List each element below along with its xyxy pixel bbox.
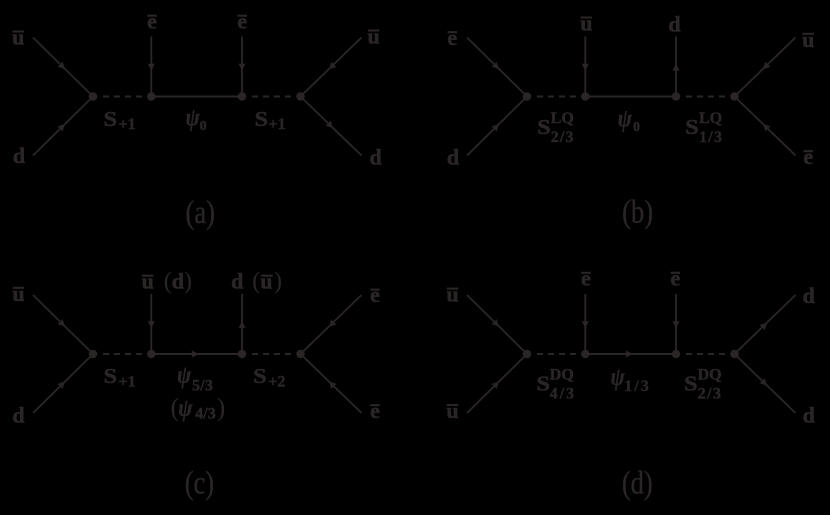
svg-text:(b): (b) [622, 194, 653, 230]
svg-text:LQ: LQ [551, 110, 574, 127]
wire outgoing bottom-right leg (b) [735, 97, 796, 156]
wire incoming bottom-left leg (b) [467, 97, 527, 156]
arrow on bottom-right leg (d) [759, 378, 769, 388]
svg-text:0: 0 [200, 119, 207, 134]
svg-text:(d): (d) [622, 465, 653, 501]
svg-text:S: S [253, 364, 266, 388]
svg-text:u: u [367, 24, 379, 49]
overbar of label u-bar top-left (a) [12, 30, 24, 32]
overbar of label u-bar bottom-left (d) [447, 404, 459, 406]
label S+2 (c) [253, 364, 266, 388]
svg-text:u: u [802, 27, 814, 52]
svg-text:1/3: 1/3 [624, 378, 650, 395]
overbar of label u-bar top-right (a) [368, 29, 380, 31]
vertex dot 2 (c) [147, 350, 156, 359]
vertex dot 3 (d) [672, 350, 681, 359]
svg-text:DQ: DQ [550, 366, 574, 383]
wire outgoing bottom-right leg (a) [301, 97, 362, 156]
overbar of label e-bar bottom-right (b) [803, 150, 813, 152]
arrow on top-left leg (c) [57, 319, 67, 329]
vertex dot 3 (a) [238, 92, 247, 101]
caption (a) [185, 194, 214, 230]
svg-text:(a): (a) [185, 194, 214, 230]
wire outgoing bottom-right leg (d) [735, 354, 796, 413]
label S+1 left (a) [104, 107, 117, 131]
svg-text:d: d [668, 12, 680, 37]
svg-text:d: d [447, 145, 459, 170]
svg-text:DQ: DQ [698, 366, 722, 383]
svg-text:): ) [217, 393, 226, 422]
label S-LQ-2/3 (b) [537, 115, 550, 139]
svg-text:u: u [12, 25, 24, 50]
overbar of u in "u-bar (d)" (c) [142, 275, 154, 277]
wire incoming top-left leg (d) [467, 295, 527, 354]
svg-text:+2: +2 [268, 373, 285, 390]
vertex dot 4 (d) [730, 350, 739, 359]
arrow on top-right leg (b) [760, 62, 770, 72]
arrow on top-left leg (a) [57, 61, 67, 71]
svg-text:e: e [803, 144, 813, 169]
wire incoming top-left leg (a) [33, 38, 93, 97]
svg-text:S: S [104, 364, 117, 388]
dashed scalar propagator right (a) [252, 96, 291, 98]
arrow on left vertical (b) [582, 63, 589, 70]
overbar of u in "(u-bar)" (c) [261, 275, 273, 277]
fermion line psi (a) [151, 96, 242, 98]
fermion line psi (d) [585, 353, 676, 355]
svg-text:u: u [446, 398, 458, 423]
vertex dot 1 (d) [523, 350, 532, 359]
svg-text:S: S [684, 372, 697, 396]
vertex dot 1 (b) [523, 92, 532, 101]
caption (b) [622, 194, 653, 230]
vertex dot 2 (b) [581, 92, 590, 101]
wire vertical at left vertex (d) [584, 294, 586, 354]
wire outgoing top-right leg (c) [301, 295, 362, 354]
vertex dot 2 (d) [581, 350, 590, 359]
svg-text:d: d [13, 143, 25, 168]
label psi0 (b) [618, 105, 633, 133]
svg-text:e: e [447, 25, 457, 50]
svg-text:ψ: ψ [177, 361, 192, 389]
svg-text:2/3: 2/3 [698, 386, 723, 403]
label S-DQ-2/3 (d) [684, 372, 697, 396]
vertex dot 4 (b) [730, 92, 739, 101]
svg-text:+1: +1 [119, 116, 136, 133]
wire outgoing top-right leg (a) [301, 38, 362, 97]
svg-text:ψ: ψ [618, 105, 633, 133]
svg-text:+1: +1 [269, 116, 286, 133]
arrow on top-right leg (a) [326, 62, 336, 72]
arrow on bottom-right leg (a) [325, 120, 335, 130]
dashed scalar propagator left (a) [103, 96, 142, 98]
svg-text:S: S [537, 372, 550, 396]
svg-text:4/3: 4/3 [550, 386, 576, 403]
wire vertical at left vertex (a) [150, 37, 152, 97]
svg-text:e: e [370, 282, 380, 307]
overbar of label u-bar top-left (d) [447, 288, 459, 290]
wire outgoing top-right leg (b) [735, 38, 796, 97]
arrow on top-right leg (c) [326, 319, 336, 329]
overbar of label e-bar left vertical (a) [147, 15, 157, 17]
svg-text:+1: +1 [119, 373, 136, 390]
svg-text:(d): (d) [164, 269, 192, 295]
wire incoming bottom-left leg (d) [467, 354, 527, 413]
svg-text:ψ: ψ [178, 394, 193, 422]
svg-text:u: u [12, 281, 24, 306]
wire incoming top-left leg (c) [33, 295, 93, 354]
overbar of label e-bar bottom-right (c) [370, 404, 380, 406]
wire incoming top-left leg (b) [467, 38, 527, 97]
overbar of label e-bar top-left (b) [448, 31, 458, 33]
svg-text:d: d [369, 145, 381, 170]
vertex dot 3 (b) [672, 92, 681, 101]
dashed scalar propagator left (b) [537, 96, 576, 98]
label S+1 (c) [104, 364, 117, 388]
caption (c) [185, 465, 214, 501]
label S+1 right (a) [255, 107, 268, 131]
vertex dot 1 (a) [89, 92, 98, 101]
svg-text:u: u [580, 11, 592, 36]
svg-text:1/3: 1/3 [699, 129, 723, 146]
overbar of label e-bar right vertical (d) [671, 272, 681, 274]
arrow on psi line (c) [192, 350, 199, 357]
wire outgoing bottom-right leg (c) [301, 354, 362, 413]
label S-DQ-4/3 (d) [537, 372, 550, 396]
arrow on right vertical (b) [672, 64, 679, 71]
overbar of label e-bar left vertical (d) [581, 272, 591, 274]
svg-text:e: e [237, 8, 247, 33]
overbar of label e-bar top-right (c) [370, 289, 380, 291]
vertex dot 4 (a) [296, 92, 305, 101]
wire outgoing top-right leg (d) [735, 295, 796, 354]
wire vertical at left vertex (b) [584, 37, 586, 97]
arrow on bottom-left leg (c) [57, 379, 67, 389]
dashed scalar propagator right (d) [686, 353, 725, 355]
arrow on bottom-right leg (b) [760, 121, 770, 131]
dashed scalar propagator left (c) [103, 353, 142, 355]
svg-text:d: d [12, 402, 24, 427]
label S-LQ-1/3 (b) [685, 115, 698, 139]
arrow on psi line (d) [626, 350, 633, 357]
arrow on bottom-left leg (b) [491, 121, 501, 131]
svg-text:u: u [446, 282, 458, 307]
arrow on left vertical (c) [148, 321, 155, 328]
svg-text:e: e [370, 398, 380, 423]
overbar of label u-bar top-left (c) [13, 287, 25, 289]
svg-text:S: S [685, 115, 698, 139]
svg-text:4/3: 4/3 [195, 406, 215, 423]
svg-text:2/3: 2/3 [551, 129, 575, 146]
svg-text:ψ: ψ [186, 104, 201, 132]
arrow on left vertical (d) [582, 321, 589, 328]
wire vertical at right vertex (d) [675, 294, 677, 354]
wire vertical at right vertex (b) [675, 37, 677, 97]
svg-text:d: d [231, 269, 243, 294]
svg-text:(u): (u) [252, 269, 282, 295]
svg-text:e: e [147, 8, 157, 33]
vertex dot 3 (c) [238, 350, 247, 359]
arrow on right vertical (d) [672, 321, 679, 328]
svg-text:e: e [581, 265, 591, 290]
svg-text:S: S [537, 115, 550, 139]
vertex dot 4 (c) [296, 350, 305, 359]
wire incoming bottom-left leg (c) [33, 354, 93, 413]
caption (d) [622, 465, 653, 501]
arrow on bottom-right leg (c) [326, 379, 336, 389]
wire incoming bottom-left leg (a) [33, 97, 93, 156]
dashed scalar propagator right (b) [686, 96, 725, 98]
svg-text:ψ: ψ [611, 364, 626, 392]
svg-text:(c): (c) [185, 465, 214, 501]
svg-text:LQ: LQ [699, 110, 722, 127]
arrow on left vertical (a) [148, 63, 155, 70]
arrow on right vertical (c) [238, 321, 245, 328]
fermion line psi (b) [585, 96, 676, 98]
arrow on top-left leg (b) [491, 61, 501, 71]
svg-text:e: e [671, 265, 681, 290]
arrow on bottom-left leg (d) [491, 379, 501, 389]
arrow on top-left leg (d) [491, 319, 501, 329]
overbar of label u-bar left vertical (b) [581, 16, 593, 18]
psi of "(psi-4/3)" (c) [178, 394, 193, 422]
wire vertical at left vertex (c) [150, 294, 152, 354]
svg-text:0: 0 [633, 120, 640, 135]
label psi0 (a) [186, 104, 201, 132]
svg-text:d: d [803, 402, 815, 427]
svg-text:d: d [803, 283, 815, 308]
dashed scalar propagator left (d) [537, 353, 576, 355]
arrow on bottom-left leg (a) [57, 121, 67, 131]
vertex dot 1 (c) [89, 350, 98, 359]
svg-text:u: u [142, 269, 154, 294]
wire vertical at right vertex (a) [241, 37, 243, 97]
label psi-1/3 (d) [611, 364, 626, 392]
svg-text:S: S [255, 107, 268, 131]
wire vertical at right vertex (c) [241, 294, 243, 354]
arrow on right vertical (a) [238, 63, 245, 70]
vertex dot 2 (a) [147, 92, 156, 101]
svg-text:5/3: 5/3 [192, 377, 213, 394]
label psi-5/3 (c) [177, 361, 192, 389]
arrow on top-right leg (d) [759, 320, 769, 330]
svg-text:S: S [104, 107, 117, 131]
overbar of label u-bar top-right (b) [802, 33, 814, 35]
overbar of label e-bar right vertical (a) [238, 15, 248, 17]
fermion line psi (c) [151, 353, 242, 355]
dashed scalar propagator right (c) [252, 353, 291, 355]
